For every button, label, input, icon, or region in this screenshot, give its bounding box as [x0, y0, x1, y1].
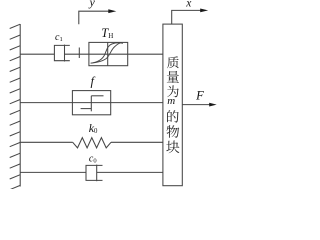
- wire row4 wall to damper c0: [20, 171, 86, 173]
- hanzi 为: [167, 85, 179, 97]
- svg-text:f: f: [91, 75, 96, 89]
- damper C0 piston: [96, 165, 98, 182]
- wire row3 spring to mass: [111, 141, 163, 143]
- wall hatching: [10, 24, 21, 190]
- svg-text:TH: TH: [101, 26, 113, 40]
- friction box f: [72, 91, 110, 115]
- svg-text:y: y: [89, 0, 96, 9]
- friction characteristic vertical: [90, 96, 92, 112]
- force F arrow line: [182, 104, 211, 106]
- svg-text:c0: c0: [89, 153, 97, 164]
- wire row3 wall to spring: [20, 141, 72, 143]
- hanzi 质: [167, 56, 179, 68]
- svg-text:F: F: [195, 88, 204, 102]
- hanzi 物: [167, 125, 180, 137]
- wall: [19, 24, 21, 187]
- TH box vertical axis: [107, 42, 109, 65]
- wire rod c1 to box TH: [65, 53, 89, 55]
- hysteresis curve upper branch: [91, 43, 123, 63]
- friction characteristic lower step: [81, 108, 92, 110]
- wire row1 wall to damper c1: [20, 53, 54, 55]
- node tick between c1 and TH: [78, 48, 80, 59]
- hysteresis curve lower branch: [91, 43, 121, 63]
- F arrowhead: [209, 103, 217, 107]
- TH box horizontal axis: [89, 53, 128, 55]
- wire rod c0 to mass: [97, 171, 163, 173]
- friction characteristic upper step: [91, 95, 103, 97]
- damper C1 piston: [64, 45, 66, 62]
- svg-text:x: x: [185, 0, 192, 10]
- x axis line: [172, 10, 202, 24]
- hanzi 块: [166, 141, 179, 154]
- wire row1 box TH to mass: [128, 53, 163, 55]
- svg-text:c1: c1: [55, 32, 63, 43]
- wire row2 wall to mass through friction box: [20, 102, 163, 104]
- y axis line: [79, 11, 110, 24]
- svg-text:m: m: [167, 95, 175, 107]
- mass block hanzi text: [166, 56, 179, 153]
- y axis arrowhead: [108, 9, 116, 13]
- x axis arrowhead: [200, 9, 208, 13]
- hanzi 的: [167, 110, 179, 122]
- mass block: [163, 24, 182, 186]
- hanzi 量: [167, 71, 179, 83]
- hysteresis box TH: [89, 42, 128, 65]
- spring k0 zigzag: [73, 138, 111, 148]
- svg-text:k0: k0: [89, 121, 98, 135]
- damper C1 cylinder: [54, 45, 69, 60]
- damper C0 cylinder: [86, 165, 103, 180]
